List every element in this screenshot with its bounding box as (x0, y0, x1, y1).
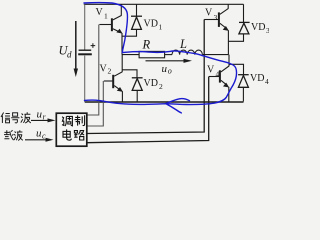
current path blue curve (84, 3, 237, 113)
voltage arrow Ud (74, 21, 78, 77)
svg-text:4: 4 (265, 77, 269, 86)
hanzi 电路 (circuit) (63, 129, 84, 140)
svg-text:2: 2 (108, 67, 112, 76)
diode VD3 (229, 4, 250, 41)
modulation circuit box (56, 113, 87, 146)
svg-text:V: V (96, 7, 104, 18)
arrow ur input (31, 118, 56, 122)
hanzi 电 (63, 129, 71, 140)
wire L to right leg (202, 54, 228, 56)
svg-text:c: c (42, 132, 46, 141)
svg-text:V: V (207, 65, 215, 76)
arrow uc input (25, 138, 54, 142)
svg-text:R: R (142, 37, 151, 51)
svg-text:1: 1 (159, 23, 163, 32)
hanzi 载 (4, 130, 14, 140)
svg-text:u: u (162, 63, 168, 75)
svg-text:VD: VD (251, 22, 265, 33)
wire bottom rail (85, 101, 244, 103)
svg-text:o: o (168, 66, 172, 75)
wire gate V4 (87, 77, 209, 143)
svg-text:d: d (67, 50, 72, 60)
load wire left (122, 54, 139, 56)
svg-text:1: 1 (104, 12, 108, 21)
capacitor C plates (78, 43, 95, 54)
svg-text:VD: VD (250, 73, 264, 84)
hanzi 信 (1, 113, 10, 124)
wire gate V2 (87, 81, 104, 126)
svg-text:2: 2 (159, 82, 163, 91)
transistor V3 (204, 4, 229, 54)
diode VD2 (122, 70, 142, 102)
hanzi 信号波 (signal wave) (1, 112, 31, 123)
svg-text:VD: VD (144, 78, 158, 89)
wire R to L (165, 54, 172, 56)
wire gate V1 (87, 25, 99, 116)
arrow uo (146, 59, 193, 63)
svg-text:L: L (179, 37, 187, 51)
svg-text:V: V (205, 8, 213, 19)
svg-text:4: 4 (216, 70, 220, 79)
svg-text:3: 3 (266, 26, 269, 35)
hanzi 制 (75, 115, 85, 125)
diode VD4 (229, 64, 249, 101)
hanzi 载波 (carrier wave) (4, 130, 23, 140)
hanzi 波 (14, 130, 23, 140)
wire top rail (84, 3, 244, 5)
transistor V1 (99, 4, 122, 54)
blue arrowhead left (166, 99, 190, 104)
diode VD1 (122, 4, 142, 36)
transistor V4 (209, 55, 229, 102)
hanzi 调 (62, 116, 72, 126)
hanzi 波 (21, 112, 31, 123)
wire DC-link column upper (84, 4, 86, 49)
wire gate V3 (87, 20, 204, 134)
hanzi 号 (11, 113, 19, 123)
svg-text:VD: VD (144, 19, 158, 30)
wire DC-link column lower (84, 56, 86, 102)
hanzi 调制 (modulation) (62, 115, 85, 126)
svg-text:3: 3 (214, 13, 218, 22)
transistor V2 (104, 55, 123, 102)
resistor R (139, 51, 165, 57)
hanzi 路 (74, 130, 84, 140)
inductor L (172, 50, 202, 55)
svg-text:V: V (100, 64, 108, 75)
